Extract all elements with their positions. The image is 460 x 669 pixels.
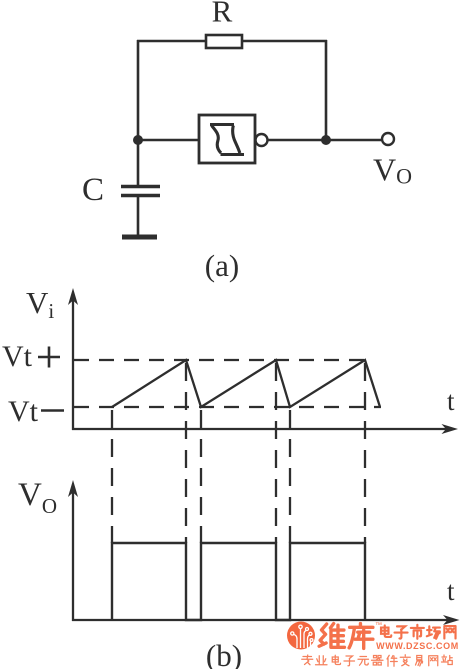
watermark text wei: [319, 624, 344, 648]
svg-text:Vt: Vt: [8, 395, 39, 428]
node output junction: [321, 135, 331, 145]
watermark slogan dian: [332, 655, 340, 664]
schmitt trigger U1 box: [199, 115, 255, 163]
capacitor C top plate: [121, 185, 160, 188]
svg-text:t: t: [447, 576, 455, 606]
watermark text shi: [411, 625, 424, 639]
Vi horizontal axis: [72, 428, 448, 430]
watermark slogan jiao: [400, 655, 410, 666]
wire capacitor to ground: [137, 196, 140, 235]
Vi vertical axis arrowhead: [68, 288, 78, 305]
dashed vertical t4 peak2: [275, 363, 277, 543]
schmitt output bubble: [256, 134, 268, 146]
watermark slogan zhan: [442, 655, 453, 665]
watermark slogan qi: [372, 656, 384, 666]
svg-text:(a): (a): [205, 248, 239, 283]
wire input to gate: [138, 139, 199, 142]
svg-text:R: R: [212, 0, 233, 29]
wire gate output: [268, 139, 383, 142]
wire top-left horizontal: [137, 40, 206, 43]
threshold line Vt+ dashed: [74, 359, 370, 361]
node input junction: [133, 135, 143, 145]
label Vt+ plus sign: [38, 347, 60, 368]
watermark text wang: [444, 626, 455, 638]
dashed vertical t6 peak3: [364, 363, 366, 543]
VO horizontal axis arrowhead: [443, 615, 460, 625]
svg-text:t: t: [447, 386, 455, 416]
Vi horizontal axis arrowhead: [442, 424, 459, 434]
wire right vertical: [325, 40, 328, 140]
svg-text:(b): (b): [206, 638, 242, 669]
resistor R: [206, 35, 242, 48]
square wave VO: [112, 543, 365, 620]
watermark slogan jian: [387, 655, 397, 666]
Vi vertical axis: [72, 299, 74, 430]
svg-text:C: C: [82, 172, 104, 208]
svg-text:WWW.DZSC.COM: WWW.DZSC.COM: [376, 641, 459, 651]
wire left vertical: [137, 40, 140, 185]
watermark slogan ye: [316, 656, 328, 665]
watermark slogan yi: [416, 656, 423, 667]
watermark slogan wang: [429, 656, 438, 666]
watermark slogan zi: [344, 656, 355, 666]
watermark logo traces: [291, 625, 313, 648]
svg-text:Vt: Vt: [2, 340, 33, 373]
watermark text ku: [349, 624, 373, 649]
threshold line Vt- dashed: [74, 406, 381, 408]
dashed vertical t3 valley1: [200, 410, 202, 543]
dashed vertical t2 peak1: [185, 363, 187, 543]
watermark text chang: [427, 626, 440, 638]
VO vertical axis: [72, 490, 74, 621]
label Vt- minus sign: [41, 409, 64, 412]
watermark slogan zhuan: [302, 655, 313, 665]
watermark logo circle: [287, 622, 315, 650]
watermark text dian: [381, 625, 391, 636]
watermark slogan yuan: [358, 657, 369, 666]
schmitt trigger hysteresis symbol: [210, 125, 244, 155]
ground: [122, 235, 157, 240]
dashed vertical t1: [111, 410, 113, 543]
VO vertical axis arrowhead: [68, 480, 78, 497]
dashed vertical t5 valley2: [289, 410, 291, 543]
capacitor C bottom plate: [121, 194, 160, 197]
VO horizontal axis: [72, 619, 450, 621]
output terminal circle: [382, 133, 394, 145]
watermark text zi: [395, 626, 408, 638]
sawtooth waveform Vi: [112, 360, 380, 407]
wire top-right horizontal: [242, 40, 327, 43]
